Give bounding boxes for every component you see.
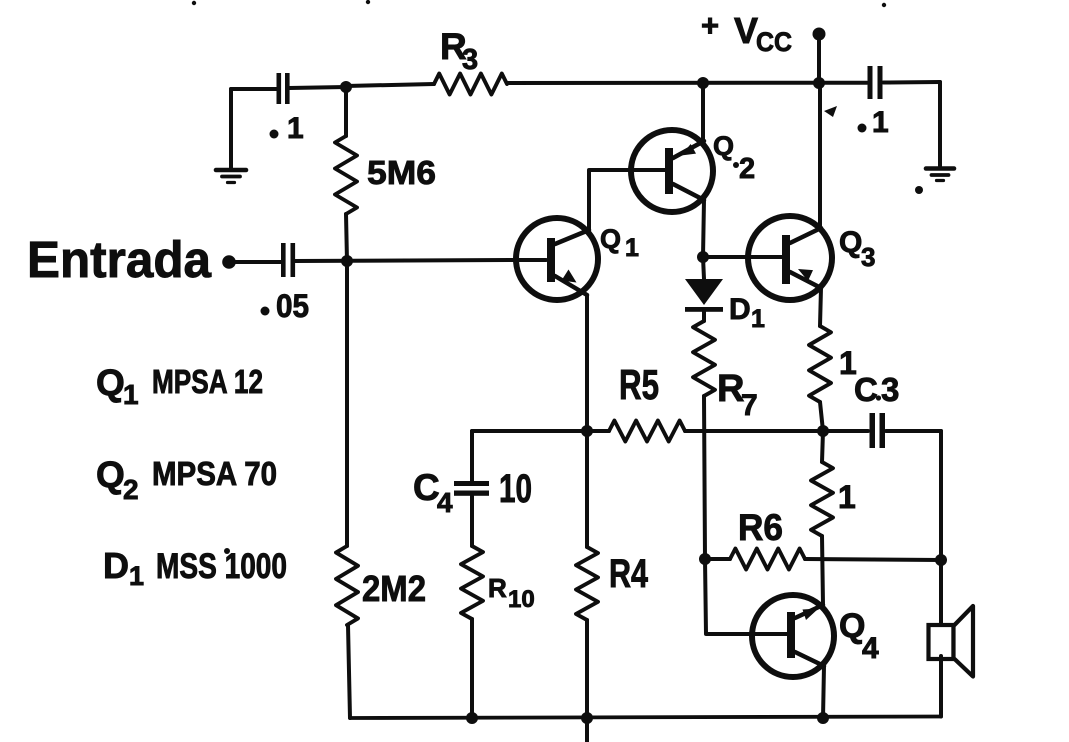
node A (top of 5M6) [340,81,352,93]
svg-text:CC: CC [756,27,792,57]
svg-text:3: 3 [861,242,875,272]
node I (output / speaker junction) [935,554,947,566]
wire R10 to bottom rail [470,619,474,718]
node B (Q2 emitter tap) [697,77,709,89]
wire R5 to node G [685,429,868,433]
transistor Q3 [748,216,832,300]
wire node E to Q3 base [703,255,782,259]
svg-text:1: 1 [751,305,765,333]
svg-text:3: 3 [462,44,478,76]
svg-text:1: 1 [123,379,139,410]
node input terminal dot [222,255,236,269]
svg-text:2M2: 2M2 [362,568,426,609]
wire node A down to 5M6 [344,87,348,136]
resistor R6 [730,549,805,570]
svg-text:C: C [413,467,440,508]
svg-text:Q: Q [713,131,734,161]
ground (right) [926,166,954,171]
wire left drop to ground [229,89,233,168]
ground (left) [216,168,246,173]
wire Q3 collector to rail node C [818,83,822,228]
resistor R4 [576,547,598,620]
wire speaker to bottom rail corner [939,656,943,717]
svg-text:C: C [854,371,878,408]
capacitor .05 input (plates) [281,243,286,277]
wire Q2 emitter to rail node B [701,83,705,141]
stray speck top 3 [882,3,886,7]
capacitor C1 .1 left (plates) [277,73,282,104]
svg-text:1: 1 [287,112,304,145]
node H (Q1 emitter / R4 / R5 junction) [581,425,593,437]
value label .05 [261,307,270,316]
node F (R7 / R6 / Q4 base junction) [699,553,711,565]
svg-text:4: 4 [862,632,879,665]
wire C4 corner to node H [472,429,587,433]
svg-text:D: D [103,545,129,586]
svg-text:Q: Q [96,362,125,403]
wire node I down to speaker [939,560,943,624]
wire node F to R6 [705,557,730,561]
svg-text:1: 1 [129,561,144,591]
svg-text:10: 10 [499,467,532,511]
node E (Q2 collector / D1 / Q3 base) [697,251,709,263]
resistor R3 [434,74,507,95]
wire Q1 collector up and to Q2 base [589,170,666,230]
wire right drop to ground [938,82,942,166]
node C (Vcc / Q3 collector tap) [813,77,825,89]
svg-text:+: + [701,8,719,43]
svg-text:D: D [729,293,751,326]
wire 5M6 to node D to 2M2 [346,214,347,546]
transistor Q2 [631,130,713,212]
stray speck top 1 [192,1,196,5]
capacitor C3 (plates) [870,413,876,448]
node G (1 ohm junction / C3) [817,425,829,437]
svg-text:1: 1 [625,234,639,262]
wire node A to R3 [346,84,434,86]
wire cap to right corner [884,80,941,85]
node J (R10 / bottom rail) [466,712,478,724]
svg-text:1: 1 [872,106,889,139]
wire Q4 base L from node F [705,559,787,634]
svg-text:05: 05 [276,288,309,324]
stray ink dot near right ground [915,186,923,194]
stray ink mark above .1 [824,106,837,117]
resistor R5 [609,421,685,442]
transistor Q1 [516,218,598,300]
wire 1 ohm to node G [820,402,823,431]
wire node G down to 1 ohm (lower) [822,431,823,462]
resistor 2M2 [336,546,358,625]
wire R3 to Vcc rail nodes [507,81,867,85]
wire Q1 emitter down to R4 [585,295,589,547]
node L (Q4 / bottom rail) [817,712,829,724]
wire Q3 emitter to 1 ohm resistor [820,288,821,326]
svg-text:Q: Q [839,226,862,259]
wire R7 down crossing mid rail to node F [704,396,705,559]
stray speck top 2 [366,0,370,4]
wire input to cap [235,260,281,264]
resistor 1 (lower) [811,462,833,536]
wire node E down to diode [703,257,704,279]
transistor Q4 [752,595,834,677]
node K (R4 / bottom rail) [581,712,593,724]
svg-text:1: 1 [838,479,856,515]
speaker [929,625,954,659]
diode D1 [685,279,723,305]
resistor R7 [693,321,715,396]
svg-text:Q: Q [96,454,125,495]
wire diode to R7 [702,311,706,321]
node D (input / 5M6 / 2M2 junction) [341,255,353,267]
wire 1 ohm down to Q4 emitter [822,536,823,605]
svg-text:R5: R5 [619,361,659,408]
resistor 1 (upper) [809,326,831,402]
svg-text:V: V [734,10,758,51]
resistor 5M6 [335,136,357,214]
wire C4 to R10 [470,496,474,546]
wire cap to node A [289,87,346,88]
svg-text:MPSA 70: MPSA 70 [152,455,277,492]
wire 2M2 to bottom rail corner [348,625,350,718]
svg-text:3: 3 [881,371,899,408]
svg-text:MPSA 12: MPSA 12 [152,363,263,400]
capacitor C4 (plates) [454,481,489,486]
svg-text:R: R [488,573,507,603]
wire Q4 collector to bottom rail [823,666,824,718]
wire R6 to node I [805,559,941,560]
power +Vcc stub [813,28,826,41]
svg-text:2: 2 [739,153,755,185]
svg-text:R4: R4 [609,552,649,596]
wire top rail left segment to cap [231,87,277,91]
svg-text:2: 2 [123,474,139,505]
wire R4 to bottom rail and stub [585,620,589,742]
svg-text:7: 7 [741,389,758,422]
wire C3 to right corner [886,429,941,433]
svg-text:R6: R6 [738,507,783,548]
value label .1 (left) [270,130,279,139]
value label .1 (right) [858,124,867,133]
svg-text:4: 4 [437,487,453,518]
wire Q2 collector down to node E [703,200,704,257]
svg-text:Q: Q [600,224,621,254]
wire mid rail corner down to C4 [470,431,474,481]
svg-text:5M6: 5M6 [367,154,436,191]
svg-text:MSS 1000: MSS 1000 [156,547,287,586]
wire node H to R5 [587,429,609,433]
svg-text:Entrada: Entrada [27,231,212,288]
wire right corner down to node I [939,431,943,560]
svg-text:10: 10 [508,586,535,613]
wire bottom ground rail [350,717,941,719]
capacitor C2 .1 right (plates) [868,66,873,99]
resistor R10 [461,546,483,619]
wire cap to node D and Q1 base [295,260,546,261]
